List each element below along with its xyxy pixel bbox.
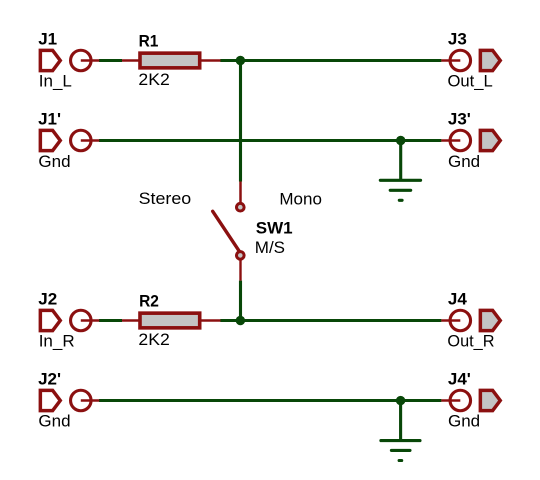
- svg-text:Gnd: Gnd: [38, 152, 70, 171]
- resistor R2: [122, 313, 221, 328]
- junction node row4 gnd: [396, 396, 405, 405]
- switch SW1: [213, 182, 244, 281]
- wire net row2 (Gnd L): [99, 139, 441, 142]
- svg-text:R1: R1: [139, 31, 159, 50]
- svg-text:J4': J4': [448, 370, 471, 389]
- connector J1' symbol: [40, 130, 99, 151]
- svg-text:In_L: In_L: [39, 72, 72, 91]
- svg-text:J3: J3: [448, 30, 467, 49]
- wire net row3 (In_R to Out_R): [99, 319, 441, 322]
- wire gnd stub row2: [399, 141, 402, 181]
- svg-text:J1: J1: [38, 30, 57, 49]
- svg-text:J2: J2: [38, 290, 57, 309]
- svg-text:Out_R: Out_R: [447, 332, 494, 351]
- svg-text:R2: R2: [139, 291, 159, 310]
- wire net row4 (Gnd R): [99, 399, 441, 402]
- ground symbol GND2 (row4): [381, 441, 420, 461]
- svg-text:J2': J2': [38, 370, 61, 389]
- junction node row1 / R1 output: [236, 56, 245, 65]
- wire vertical trunk lower (SW1 to junction row3): [239, 281, 242, 321]
- svg-text:J4: J4: [448, 290, 467, 309]
- junction node row3 / R2 output: [236, 316, 245, 325]
- connector J3' symbol: [441, 130, 500, 151]
- svg-text:J3': J3': [448, 110, 471, 129]
- junction node row2 gnd: [396, 136, 405, 145]
- svg-text:Out_L: Out_L: [448, 72, 493, 91]
- svg-text:Stereo: Stereo: [139, 189, 192, 208]
- svg-text:2K2: 2K2: [138, 70, 169, 89]
- wire gnd stub row4: [399, 401, 402, 441]
- svg-text:Mono: Mono: [279, 190, 322, 209]
- connector J1 symbol: [40, 50, 99, 71]
- svg-text:In_R: In_R: [39, 332, 75, 351]
- wire vertical trunk upper (junction row1 to SW1): [239, 61, 242, 182]
- connector J4 symbol: [441, 310, 500, 331]
- ground symbol GND1 (row2): [380, 180, 420, 200]
- svg-text:J1': J1': [38, 110, 61, 129]
- connector J3 symbol: [441, 50, 500, 71]
- connector J2 symbol: [40, 310, 99, 331]
- svg-text:Gnd: Gnd: [448, 152, 480, 171]
- svg-text:Gnd: Gnd: [448, 412, 480, 431]
- connector J2' symbol: [40, 390, 99, 411]
- svg-text:2K2: 2K2: [138, 330, 169, 349]
- connector J4' symbol: [441, 390, 500, 411]
- svg-text:M/S: M/S: [255, 238, 285, 257]
- svg-text:SW1: SW1: [256, 219, 293, 238]
- resistor R1: [122, 53, 221, 68]
- svg-text:Gnd: Gnd: [38, 412, 70, 431]
- wire net row1 (In_L to Out_L): [99, 59, 441, 62]
